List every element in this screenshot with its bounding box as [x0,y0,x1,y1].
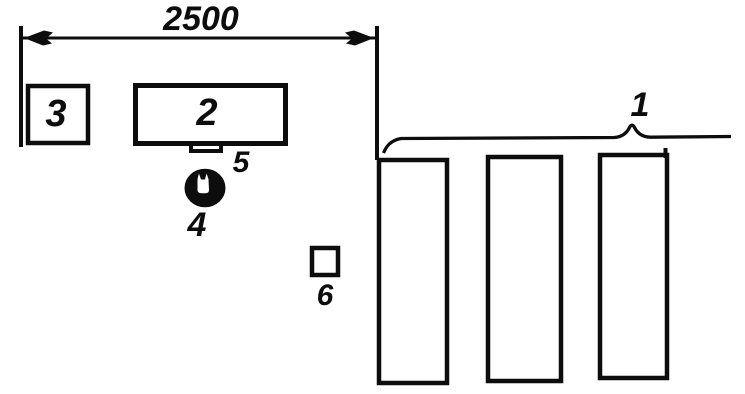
svg-text:2: 2 [195,92,217,134]
svg-text:1: 1 [631,86,650,124]
label 6 [317,279,334,312]
dimension label 2500 [162,0,239,38]
dimension line [23,37,375,40]
square 6 [312,248,338,275]
stand rectangle 1a [379,160,447,383]
svg-text:6: 6 [317,279,334,312]
label 3 [45,93,66,135]
stand rectangle 1c [600,148,667,378]
right extension line [375,26,379,160]
svg-text:5: 5 [233,146,251,179]
left arrowhead [24,31,53,46]
label 4 [187,206,207,244]
label 1 [631,86,650,124]
stand rectangle 1b [488,157,561,381]
right arrowhead [345,31,374,46]
label 5 [233,146,251,179]
lamp 4 (filled circle) [185,169,226,208]
rectangle 2 [136,86,286,144]
rectangle 3 [28,86,88,143]
left extension line [19,26,23,147]
svg-text:3: 3 [45,93,66,135]
brace over stands [384,125,732,153]
svg-text:4: 4 [187,206,207,244]
svg-text:2500: 2500 [162,0,239,38]
tab 5 under rectangle 2 [191,143,221,151]
label 2 [195,92,217,134]
